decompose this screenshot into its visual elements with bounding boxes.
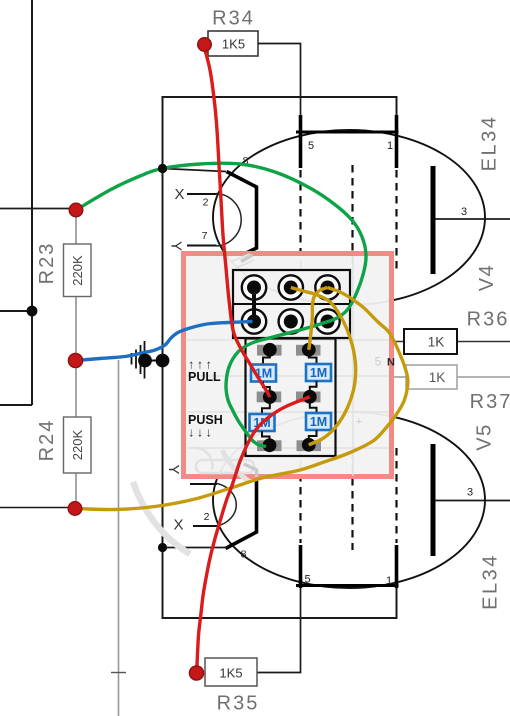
wire: V5 pin 2 lead <box>193 525 217 527</box>
wire: R37 right lead <box>457 376 510 378</box>
resistor R24 body <box>64 417 92 473</box>
resistor R36 body <box>404 329 457 354</box>
wire: V4 pin 7 lead <box>187 245 217 247</box>
svg-text:3: 3 <box>467 487 473 499</box>
svg-text:X: X <box>173 517 183 534</box>
wire: left bus vertical <box>31 0 33 405</box>
svg-text:R23: R23 <box>36 242 58 285</box>
node: red terminal B (blue) <box>68 353 82 367</box>
svg-text:R24: R24 <box>36 419 58 462</box>
wire: R23 to node B <box>75 297 77 356</box>
pad A1 <box>257 343 282 357</box>
connector socket divider <box>233 303 350 305</box>
svg-text:1K: 1K <box>428 335 445 350</box>
svg-text:↓↓↓: ↓↓↓ <box>188 426 214 440</box>
node: ground junction dot <box>138 354 152 368</box>
wire: gold net short (socket A3 to pad B1) <box>309 288 328 350</box>
node: junction on left bus <box>27 306 38 317</box>
V5 grid dashed left <box>299 448 301 543</box>
tube V5 (EL34) <box>158 412 510 610</box>
socket pin A3 <box>315 275 339 299</box>
wire: R36 right lead <box>457 341 510 343</box>
V5 grid crossbar <box>296 584 399 587</box>
wire: left stub to node C <box>0 507 70 509</box>
svg-text:V5: V5 <box>474 423 496 450</box>
V4 grid bar pin 5 <box>299 115 303 168</box>
wire: pad A1 to R-A1 <box>263 350 270 365</box>
wire: pad A2 to R-A2 <box>262 402 270 414</box>
wire: socket column link <box>252 288 256 322</box>
V5 cathode <box>226 464 257 549</box>
svg-text:3: 3 <box>461 206 467 218</box>
pad A2 <box>257 390 282 404</box>
svg-text:EL34: EL34 <box>480 553 502 610</box>
resistor R35 body <box>205 658 257 686</box>
socket pin A2 <box>279 275 303 299</box>
wire: R-A1 to pad A2 <box>263 382 270 393</box>
V5 grid dashed middle <box>351 452 353 550</box>
wire: V5 pin 8 lead <box>163 547 228 549</box>
resistor R34 body <box>208 31 258 56</box>
decorative ghost marks <box>133 254 254 554</box>
svg-text:+: + <box>356 416 362 428</box>
svg-text:PULL: PULL <box>188 370 221 384</box>
pad B1 <box>296 343 321 357</box>
svg-text:5: 5 <box>308 140 314 152</box>
wire: gray drop line <box>118 360 120 716</box>
pad A3 <box>257 438 282 452</box>
svg-text:8: 8 <box>241 549 247 561</box>
svg-text:1M: 1M <box>310 415 327 429</box>
svg-text:X: X <box>174 186 184 203</box>
node: V4 pin8 junction (top) <box>158 164 167 173</box>
svg-text:EL34: EL34 <box>479 115 501 172</box>
wire: R-B1 to pad B2 <box>310 381 317 392</box>
label PUSH <box>188 413 223 440</box>
V4 grid dashed middle <box>351 165 353 274</box>
V5 heater arc <box>217 484 236 527</box>
resistor 1M (A lower) <box>250 414 275 431</box>
pad B2 <box>296 390 321 404</box>
wire: pad B1 to R-B1 <box>309 350 317 365</box>
grid resistor block outline <box>246 339 336 457</box>
svg-text:1: 1 <box>387 140 393 152</box>
wire: R36 left lead <box>391 341 404 343</box>
svg-text:1K5: 1K5 <box>222 36 245 51</box>
svg-text:5: 5 <box>375 355 382 369</box>
wire: red net 2 (pad B2 to R35) <box>197 397 310 671</box>
wire: V4 pin 8 lead <box>163 169 226 172</box>
svg-text:7: 7 <box>202 230 208 242</box>
svg-text:1M: 1M <box>310 366 327 380</box>
resistor 1M (A upper) <box>251 365 276 382</box>
V4 grid dashed right <box>395 170 397 272</box>
svg-text:5: 5 <box>304 574 310 586</box>
highlight box <box>184 254 392 477</box>
V4 grid bar pin 1 <box>395 115 399 168</box>
wire: V4 pin 3 lead <box>435 218 510 220</box>
wire: tick on gray drop line <box>111 672 126 674</box>
decorative ghost cathodes <box>241 255 257 477</box>
node: red terminal R34 <box>198 38 212 52</box>
socket pin B1 <box>242 309 266 333</box>
svg-text:2: 2 <box>203 197 209 209</box>
V4 anode plate <box>431 166 436 274</box>
wire: green net (node A to socket to pad A3) <box>76 163 366 446</box>
node: red terminal R35 <box>189 666 203 680</box>
wire: V5 pin 7 lead <box>190 483 217 485</box>
svg-text:V4: V4 <box>476 264 498 291</box>
resistor R23 body <box>64 244 92 297</box>
svg-text:1: 1 <box>386 575 392 587</box>
wire: node A to R23 <box>75 214 77 245</box>
tube V4 (EL34) <box>158 115 510 305</box>
wire: R-B2 to pad B3 <box>309 430 317 441</box>
svg-text:220K: 220K <box>70 255 85 286</box>
svg-text:R35: R35 <box>217 693 260 715</box>
V5 grid bar pin 5 <box>299 545 303 588</box>
wire: V5 pin5 to R35 <box>257 587 301 673</box>
svg-text:Y: Y <box>165 464 182 474</box>
resistor 1M (B upper) <box>306 364 331 381</box>
resistor 1M (B lower) <box>306 413 331 430</box>
node: box edge junction dot <box>156 354 170 368</box>
socket pin B2 <box>279 309 303 333</box>
ground (chassis hash) <box>132 341 145 379</box>
resistor R37 body <box>406 365 457 389</box>
socket pin B3 <box>315 309 339 333</box>
V5 envelope <box>213 412 485 588</box>
node: V5 pin8 junction <box>158 543 167 552</box>
wire: R37 left lead <box>392 376 406 378</box>
socket pin A1 <box>242 275 266 299</box>
V4 grid dashed left <box>299 170 301 272</box>
svg-text:1K: 1K <box>429 370 446 385</box>
svg-text:R34: R34 <box>212 8 255 30</box>
wire: ground dot link <box>145 360 163 362</box>
svg-text:R36: R36 <box>467 309 510 331</box>
wire: left stub at y=405 <box>0 404 32 406</box>
svg-text:R37: R37 <box>470 391 510 413</box>
V4 heater arc <box>217 194 242 247</box>
svg-text:2: 2 <box>204 511 210 523</box>
V5 anode plate <box>431 444 436 556</box>
node: red terminal C (gold) <box>68 502 82 516</box>
V4 grid crossbar <box>296 131 399 134</box>
wire: R-A2 to pad A3 <box>262 431 270 441</box>
wire: R34 to V4 pin5 <box>258 44 301 117</box>
connector socket outline <box>233 270 350 338</box>
wire: red net 1 (R34 to pad A2) <box>205 48 270 397</box>
node: red terminal A (green) <box>69 203 83 217</box>
wire: left stub at y=311 <box>0 310 32 312</box>
svg-text:Y: Y <box>168 241 185 251</box>
wire: V5 pin 3 lead <box>435 500 510 502</box>
V5 grid dashed right <box>395 448 397 543</box>
node: V4 pin8 junction <box>158 164 167 173</box>
pad B3 <box>297 438 322 452</box>
wire: gold net inner (socket A2 to pad B3) <box>291 288 356 445</box>
wire: V4 pin 2 lead <box>187 193 217 195</box>
wire: input stub to node A <box>0 208 71 210</box>
svg-text:220K: 220K <box>70 429 85 460</box>
decorative faint grid <box>187 256 389 476</box>
V5 grid bar pin 1 <box>395 545 399 588</box>
wire: blue net (node B to socket B1) <box>76 322 253 361</box>
svg-text:1K5: 1K5 <box>219 665 242 680</box>
wire: gold net outer (node C to socket A3) <box>75 288 408 510</box>
label PULL <box>188 358 221 384</box>
wire: R24 to node C <box>75 473 77 502</box>
V4 envelope <box>213 130 485 305</box>
wire: pad B2 to R-B2 <box>310 402 317 413</box>
svg-text:N: N <box>387 357 395 369</box>
wire: node B to R24 <box>75 366 77 418</box>
transformer primary box <box>163 97 397 618</box>
V4 cathode <box>227 172 257 255</box>
